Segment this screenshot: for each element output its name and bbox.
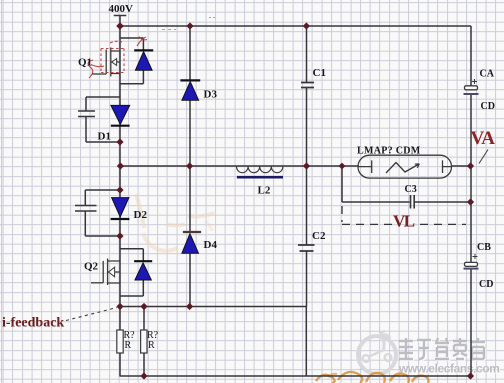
svg-text:i-feedback: i-feedback [2, 316, 64, 331]
svg-text:C1: C1 [313, 67, 326, 79]
svg-text:Q2: Q2 [84, 261, 99, 273]
svg-text:400V: 400V [109, 3, 134, 15]
svg-text:R: R [148, 340, 155, 351]
svg-text:R: R [125, 340, 132, 351]
svg-text:LMAP? CDM: LMAP? CDM [357, 146, 421, 157]
svg-text:CD: CD [481, 101, 495, 112]
svg-text:Q1: Q1 [78, 57, 92, 69]
svg-text:L2: L2 [258, 185, 271, 197]
svg-text:D4: D4 [204, 239, 218, 251]
svg-text:CD: CD [479, 279, 493, 290]
svg-text:VL: VL [393, 212, 415, 231]
svg-text:www.elecfans.com: www.elecfans.com [398, 362, 500, 376]
svg-text:D1: D1 [98, 131, 111, 143]
svg-text:CA: CA [480, 69, 495, 80]
svg-text:VA: VA [471, 128, 496, 149]
svg-text:C3: C3 [405, 184, 417, 195]
svg-text:C2: C2 [312, 230, 326, 242]
svg-text:D2: D2 [134, 209, 148, 221]
svg-text:CB: CB [477, 242, 491, 253]
svg-text:D3: D3 [204, 89, 218, 101]
